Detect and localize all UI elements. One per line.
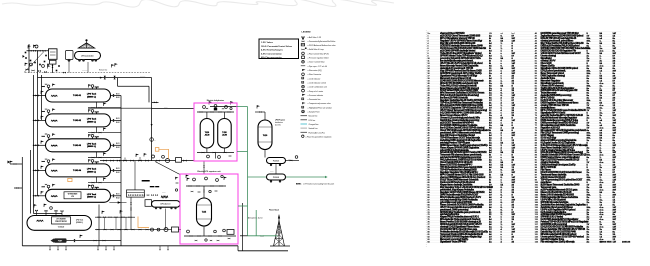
svg-text:= Ball Valve 1-XX: = Ball Valve 1-XX	[308, 37, 322, 39]
svg-text:= Pipe spec - 1/2" sch 40: = Pipe spec - 1/2" sch 40	[308, 66, 327, 68]
svg-text:LPG Tank: LPG Tank	[87, 119, 97, 121]
svg-text:= Flow meter (FQ): = Flow meter (FQ)	[308, 69, 323, 72]
svg-text:Electric LPG vaporizer unit: Electric LPG vaporizer unit	[198, 170, 221, 173]
LPG odorizer unit	[109, 180, 180, 230]
svg-text:M-02: M-02	[116, 197, 120, 199]
transfer pipework to dehydrator	[38, 77, 152, 79]
svg-text:NOTE:: NOTE:	[296, 184, 302, 186]
svg-text:Filtr setchatyj Kran 11s67p kl: Filtr setchatyj Kran 11s67p klinovaja	[541, 241, 576, 244]
left manifold vertical pipes	[33, 75, 35, 214]
svg-text:= Flow Control Valve (FCV): = Flow Control Valve (FCV)	[308, 52, 330, 55]
svg-text:Natural line: Natural line	[309, 115, 318, 118]
svg-text:M-01: M-01	[116, 118, 120, 120]
svg-text:(50000 L): (50000 L)	[87, 197, 96, 199]
svg-text:= Sample Point: = Sample Point	[308, 111, 320, 114]
svg-text:Vented li ne: Vented li ne	[309, 127, 318, 130]
svg-text:LPG odorizer: LPG odorizer	[160, 204, 170, 206]
right manifold vertical pipe	[120, 96, 122, 246]
green line: dehydrator outlet stub	[237, 106, 248, 108]
svg-text:T-101-02: T-101-02	[73, 120, 82, 122]
vessel: dehydrator T-110-02	[218, 112, 232, 153]
svg-text:= Level indicator control: = Level indicator control	[308, 82, 327, 85]
svg-text:T-110: T-110	[222, 132, 226, 134]
pump suction header with valves	[100, 160, 194, 162]
green line: to flare (horizontal)	[248, 235, 278, 237]
svg-text:= Level indicator: = Level indicator	[308, 77, 321, 80]
svg-text:T-101-04: T-101-04	[73, 169, 82, 172]
svg-text:= Gate / Control Valve: = Gate / Control Valve	[308, 61, 325, 64]
precipitator inlet valves	[34, 213, 63, 215]
svg-text:Flammable Line (FL): Flammable Line (FL)	[309, 132, 326, 134]
svg-text:PUMP: PUMP	[58, 240, 62, 242]
svg-text:= Level Combination unit: = Level Combination unit	[308, 86, 328, 89]
svg-text:124: 124	[535, 241, 538, 244]
odorizer valve manifold rows	[95, 216, 135, 218]
svg-text:(20000 L): (20000 L)	[76, 222, 83, 224]
svg-text:(50000 L): (50000 L)	[87, 121, 96, 123]
svg-text:LPG Tank: LPG Tank	[87, 144, 97, 146]
table grid rules	[426, 30, 621, 247]
truck: LPG autotanker	[66, 51, 101, 62]
svg-text:M-01: M-01	[116, 143, 120, 145]
svg-text:s LPG tanks trucks loading fro: s LPG tanks trucks loading from this poi…	[303, 183, 335, 186]
svg-text:(50000 L): (50000 L)	[87, 171, 96, 173]
svg-text:T-101-03: T-101-03	[73, 145, 82, 147]
tank T-101-03 (LPG tank) with valves	[33, 133, 121, 158]
svg-text:= Pump w/ el. motor: = Pump w/ el. motor	[308, 90, 324, 93]
dehydrator top piping	[197, 111, 234, 113]
svg-text:T-115: T-115	[202, 212, 206, 214]
svg-text:____: ____	[161, 193, 166, 194]
svg-text:____: ____	[269, 172, 274, 173]
svg-text:Charged line: Charged line	[309, 123, 319, 126]
svg-text:= Place the gas bottle in regu: = Place the gas bottle in regulation	[306, 135, 332, 138]
svg-text:P-130-02: P-130-02	[273, 177, 279, 179]
green line: gas to consumers (horizontal)	[248, 176, 267, 178]
svg-text:M-02: M-02	[116, 172, 120, 174]
svg-text:M-01: M-01	[116, 168, 120, 170]
flare stack tower	[240, 209, 290, 247]
svg-text:2SS1SS: 2SS1SS	[622, 242, 631, 244]
vessel: buffer tank T-120	[255, 105, 285, 157]
pump P-130-02	[267, 172, 286, 183]
svg-text:T-105-00: T-105-00	[58, 227, 64, 229]
svg-text:T-101-01: T-101-01	[73, 95, 82, 97]
orange signal wire A	[155, 148, 159, 152]
dehydrator bottom piping	[197, 152, 234, 154]
svg-text:-02-00: -02-00	[222, 135, 227, 137]
svg-text:T-120: T-120	[263, 135, 267, 137]
tank T-101-04 (LPG tank) with valves	[33, 158, 121, 183]
svg-text:Return line: Return line	[99, 69, 107, 72]
svg-text:Flame Stack: Flame Stack	[269, 209, 279, 212]
dashed boundary line with return-line label	[25, 72, 150, 74]
svg-text:__: __	[153, 141, 156, 142]
svg-text:= Temperature/pressure valve: = Temperature/pressure valve	[308, 102, 331, 105]
svg-text:Signalizator Truba SPPK4R: Signalizator Truba SPPK4R	[440, 241, 467, 244]
svg-text:LPG Tank: LPG Tank	[87, 169, 97, 171]
svg-text:600: Pipe accessories: 600: Pipe accessories	[261, 57, 283, 59]
faint top margin artifact	[2, 0, 394, 7]
svg-text:= Flow Connector: = Flow Connector	[308, 73, 322, 76]
svg-text:(10 m3): (10 m3)	[275, 125, 281, 127]
equipment list left column	[428, 35, 515, 38]
tank T-101-01 (LPG tank) with valves	[33, 84, 121, 109]
vessel: LPG water precipitator	[27, 216, 92, 231]
pump P-130-01	[267, 156, 300, 174]
svg-text:____: ____	[163, 107, 168, 108]
drain pump and discharge line	[51, 238, 55, 242]
equipment list right column	[535, 32, 617, 35]
loading station instrument cluster	[23, 44, 89, 73]
svg-text:-01-00: -01-00	[204, 135, 209, 137]
svg-text:Atmospheric burner: Atmospheric burner	[248, 217, 263, 220]
svg-text:M-02: M-02	[116, 97, 120, 99]
svg-text:LPG line: LPG line	[309, 120, 316, 122]
svg-text:P-130-01: P-130-01	[273, 161, 279, 163]
svg-text:= Solid Valve & Loop: = Solid Valve & Loop	[308, 49, 324, 51]
svg-text:T-110: T-110	[205, 132, 209, 134]
svg-text:100-X: Pneumatic/Control Valve: 100-X: Pneumatic/Control Valves	[261, 45, 293, 48]
svg-text:5-XX: Instrumentation: 5-XX: Instrumentation	[261, 52, 283, 55]
svg-text:GP: GP	[302, 111, 304, 113]
svg-text:M-02: M-02	[116, 122, 120, 124]
legend line-type samples	[301, 115, 308, 117]
svg-text:(50000 L): (50000 L)	[87, 96, 96, 98]
green line: main gas header (vertical)	[247, 107, 249, 236]
svg-text:______: ______	[81, 71, 87, 72]
ground baseline	[22, 245, 238, 247]
svg-text:LPG/Propane: LPG/Propane	[275, 120, 285, 122]
green line: flare riser	[255, 210, 257, 236]
svg-text:(50000 L): (50000 L)	[87, 146, 96, 148]
magenta boundary: dehydrator skid	[194, 103, 237, 161]
far-left drain fittings	[9, 161, 11, 164]
pipe: vaporizer drain to grade	[242, 203, 244, 251]
svg-text:= Highlighted Flow rate window: = Highlighted Flow rate window	[308, 106, 333, 109]
vaporizer bottom piping	[184, 235, 236, 237]
legend symbol column	[301, 32, 336, 139]
tank T-101-05 (LPG tank) with valves	[33, 184, 121, 203]
svg-text:4-XX: Heat Exchangers: 4-XX: Heat Exchangers	[261, 49, 284, 52]
svg-text:M-02: M-02	[116, 147, 120, 149]
tank T-101-02 (LPG tank) with valves	[33, 108, 121, 133]
orange signal box C	[68, 178, 72, 181]
svg-text:1-XX: Valves: 1-XX: Valves	[261, 42, 274, 44]
svg-text:M-01: M-01	[116, 93, 120, 95]
svg-text:LPG Tank: LPG Tank	[87, 194, 97, 196]
vessel: LPG vaporizer T-115	[197, 186, 212, 236]
vaporizer top piping	[186, 185, 226, 187]
svg-text:______: ______	[139, 76, 145, 77]
legend box: numbering key	[259, 39, 299, 59]
orange signal wire B	[138, 217, 149, 228]
green line: dehydrator lower stub	[237, 151, 248, 153]
svg-text:= Pneumatically Actuated Ball: = Pneumatically Actuated Ball Valve	[308, 40, 336, 43]
svg-text:LPG autotanker: LPG autotanker	[81, 54, 94, 57]
svg-text:LEGEND: LEGEND	[302, 32, 312, 34]
svg-text:= Pressure regulator 100-X: = Pressure regulator 100-X	[308, 57, 330, 60]
canopy over loading station	[78, 39, 96, 48]
svg-text:10000 NNN: 10000 NNN	[600, 242, 612, 244]
svg-text:= PSV3 Balanced Bellows line v: = PSV3 Balanced Bellows line valve	[308, 45, 336, 47]
vessel: dehydrator T-110-01	[200, 112, 214, 153]
svg-text:LPG Tank: LPG Tank	[87, 94, 97, 96]
svg-text:= Pneumatic line: = Pneumatic line	[308, 98, 321, 101]
magenta boundary: vaporizer skid	[180, 174, 238, 244]
svg-text:LPG Tank: LPG Tank	[76, 220, 83, 222]
svg-text:84: 84	[428, 241, 430, 244]
green line: vaporizer outlet stub	[238, 205, 248, 207]
svg-text:M-01: M-01	[116, 194, 120, 196]
svg-text:= Pressure indicator: = Pressure indicator	[308, 94, 324, 97]
